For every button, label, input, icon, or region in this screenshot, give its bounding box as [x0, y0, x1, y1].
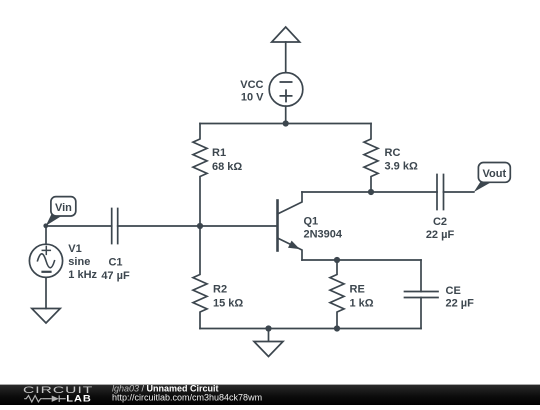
resistor RE [330, 260, 344, 329]
footer title text [112, 383, 262, 402]
svg-text:3.9 kΩ: 3.9 kΩ [385, 161, 418, 173]
node Vin wire to C1 [46, 225, 112, 227]
resistor RC [364, 124, 378, 193]
label C1 value [101, 257, 130, 283]
svg-text:sine: sine [68, 256, 90, 268]
wire top rail [200, 123, 371, 125]
label R2 value [213, 284, 243, 310]
label RE value [350, 284, 374, 310]
svg-text:Q1: Q1 [304, 216, 319, 228]
svg-text:RE: RE [350, 284, 365, 296]
wire base node to Q1 base [200, 225, 278, 227]
label V1 value [68, 243, 97, 281]
resistor R2 [193, 226, 207, 329]
capacitor C1 [112, 209, 118, 244]
wire VCC source to rail [285, 106, 287, 123]
svg-text:CE: CE [446, 285, 461, 297]
svg-text:RC: RC [385, 147, 401, 159]
svg-text:C1: C1 [108, 257, 122, 269]
label flag Vout [482, 168, 506, 180]
wire emitter rail [302, 259, 421, 261]
resistor R1 [193, 124, 207, 227]
power flag VCC arrow [272, 27, 300, 42]
svg-text:Vin: Vin [55, 202, 72, 214]
ground V1 [32, 309, 60, 324]
capacitor CE [405, 260, 439, 329]
label flag Vin [55, 202, 72, 214]
svg-text:Vout: Vout [482, 168, 506, 180]
voltage source V1 [29, 226, 62, 277]
junction emitter RE [334, 257, 340, 263]
svg-text:15 kΩ: 15 kΩ [213, 297, 243, 309]
svg-text:R1: R1 [212, 147, 226, 159]
svg-text:1 kHz: 1 kHz [68, 269, 97, 281]
svg-text:LAB: LAB [66, 394, 91, 404]
junction bottom RE [334, 325, 340, 331]
svg-text:R2: R2 [213, 284, 227, 296]
label CE value [446, 285, 475, 310]
svg-text:2N3904: 2N3904 [304, 229, 343, 241]
svg-text:VCC: VCC [240, 79, 263, 91]
svg-text:CIRCUIT: CIRCUIT [23, 384, 93, 395]
svg-text:10 V: 10 V [241, 91, 264, 103]
svg-text:1 kΩ: 1 kΩ [350, 297, 374, 309]
wire C2 to Vout [444, 191, 474, 193]
label VCC value [240, 79, 264, 103]
wire V1 to ground [45, 278, 47, 309]
svg-text:http://circuitlab.com/cm3hu84c: http://circuitlab.com/cm3hu84ck78wm [112, 393, 262, 403]
svg-text:22 µF: 22 µF [426, 229, 455, 241]
label Q1 value [304, 216, 343, 241]
label C2 value [426, 216, 455, 241]
wire C1 to base node [118, 225, 200, 227]
voltage source VCC [269, 73, 303, 107]
svg-text:C2: C2 [433, 216, 447, 228]
junction base node [197, 223, 203, 229]
wire bottom rail [200, 328, 421, 330]
svg-text:47 µF: 47 µF [101, 270, 130, 282]
flag Vout [474, 163, 511, 193]
footer logo CIRCUIT LAB [23, 384, 93, 404]
ground bottom [254, 329, 283, 357]
wire collector to C2 [302, 191, 437, 193]
wire VCC arrow to source [285, 42, 287, 73]
capacitor C2 [437, 175, 444, 210]
label R1 value [212, 147, 242, 173]
svg-text:22 µF: 22 µF [446, 298, 475, 310]
svg-text:68 kΩ: 68 kΩ [212, 161, 242, 173]
flag Vin [43, 197, 75, 229]
transistor Q1 [278, 192, 303, 260]
junction bottom ground tap [265, 325, 271, 331]
svg-text:V1: V1 [68, 243, 81, 255]
label RC value [385, 147, 418, 173]
junction VCC rail [283, 120, 289, 126]
footer bar [0, 385, 540, 405]
junction RC collector [368, 189, 374, 195]
